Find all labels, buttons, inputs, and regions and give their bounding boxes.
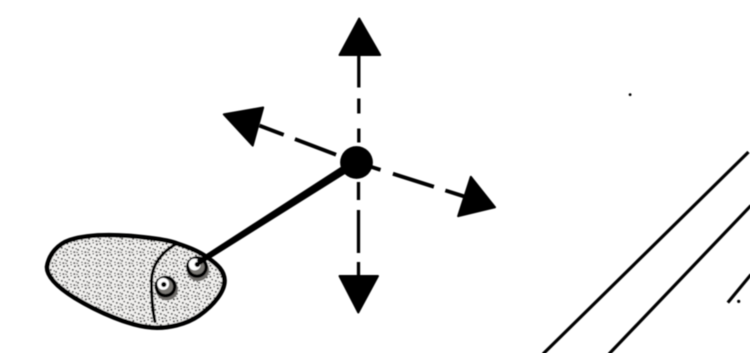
cable wire from mouse to center node [197,158,360,265]
left arrowhead [224,108,263,146]
tiny speck bottom right [737,300,740,303]
center node dot [340,146,373,179]
background diagonal line 1 [543,152,749,353]
diagonal dashed axis left [259,126,356,163]
upper button body [188,258,206,276]
right arrowhead [458,177,495,216]
lower button highlight [157,278,169,290]
diagonal dashed axis right [371,167,466,197]
lower button body [156,277,174,295]
lower button shadow [156,278,178,300]
background diagonal line 2 [609,206,750,353]
up arrowhead [340,19,381,56]
mouse body [47,235,225,328]
vertical dashed axis lower [357,182,360,276]
upper button pupil / cable end [195,262,200,267]
short diagonal segment bottom right [728,275,750,303]
upper button highlight [189,259,201,271]
lower button pupil [161,282,166,287]
upper button shadow [187,259,209,281]
vertical dashed axis upper [357,55,360,143]
down arrowhead [340,276,379,313]
mouse seam arc [152,244,178,322]
tiny speck top right [629,93,632,96]
